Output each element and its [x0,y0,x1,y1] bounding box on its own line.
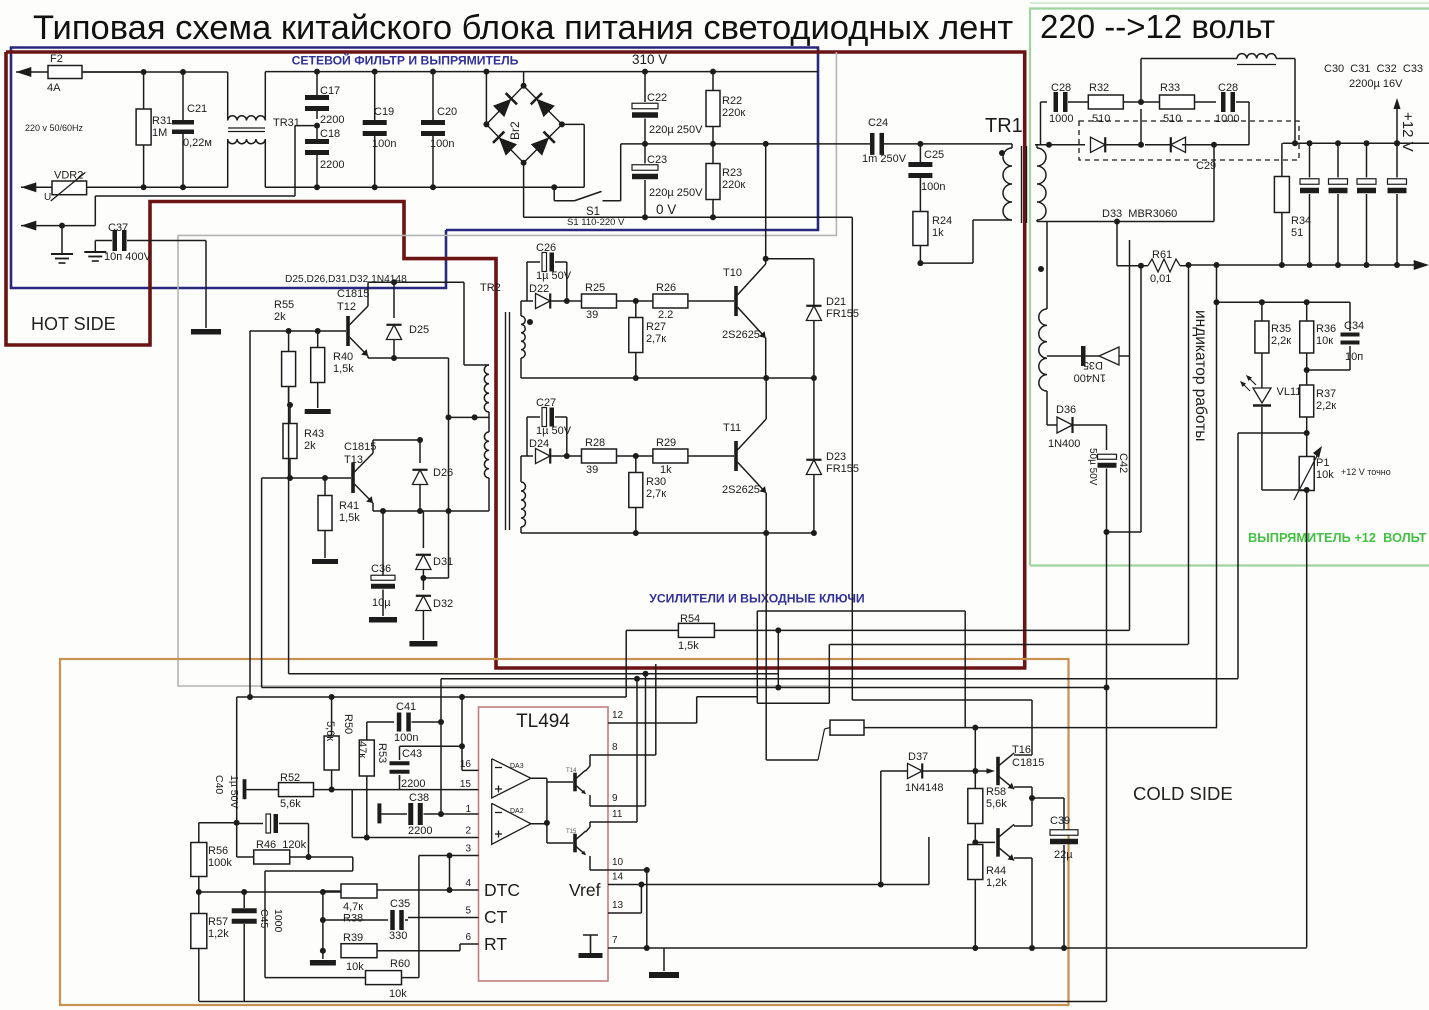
svg-text:U: U [44,192,51,203]
svg-text:D21: D21 [826,296,846,308]
ground bar R38 col [310,960,336,966]
label HOT SIDE [31,314,116,334]
label +12V vertical [1399,112,1416,152]
ground bar R40 [305,383,331,415]
label 0 V [656,202,676,217]
wire T15 emitter out [590,856,608,870]
svg-text:1m 250V: 1m 250V [862,153,907,165]
svg-text:5: 5 [465,906,471,917]
wire T14 emitter out [590,795,608,806]
svg-text:T12: T12 [337,301,356,313]
resistor R37 [1300,370,1337,433]
node dot D23 bottom [811,530,817,536]
wire R54 left riser [625,630,627,697]
wire plus12 rail [1283,140,1429,146]
wire pin4 [376,887,478,893]
wire pin13 [608,885,641,914]
svg-text:R30: R30 [646,476,666,488]
wire R54 right riser [775,630,781,690]
svg-text:51: 51 [1291,227,1303,239]
diode D24 [529,438,567,464]
svg-text:R41: R41 [339,500,359,512]
wire vref right riser [928,837,930,885]
svg-text:R34: R34 [1291,215,1311,227]
wire bottom rail row2 [521,527,814,536]
wire op-amp outputs [531,778,550,843]
wire T16 top rail [852,699,1032,701]
svg-text:D25: D25 [409,324,429,336]
label DTC [484,880,520,900]
svg-text:13: 13 [612,900,624,911]
svg-text:+12 V: +12 V [1399,112,1416,152]
capacitor C40 [213,775,279,809]
svg-text:C18: C18 [320,128,340,140]
wire bridge top to rail [521,72,527,89]
svg-text:10к: 10к [1316,335,1333,347]
svg-text:1,5k: 1,5k [339,512,360,524]
wire T10 emitter [765,338,767,378]
svg-text:C38: C38 [409,792,429,804]
capacitor C38 [377,792,432,837]
node dot C24 right [917,141,923,147]
svg-text:R46 120k: R46 120k [256,839,307,851]
wire cold c42 col [0,0,1,1]
diode D32 [416,596,453,640]
diode D25 [386,282,429,358]
node dot C17 C18 junction [314,123,320,129]
node dot R58 bottom [972,839,978,845]
wire bottom rail filter [265,186,584,188]
node dot D22 out [564,298,570,304]
resistor R27 [629,301,666,378]
label 310 V [632,52,667,67]
svg-text:C1815: C1815 [1012,757,1044,769]
bridge rectifier Br2 diamond [486,86,562,163]
diode D36 [1047,391,1107,450]
capacitor C42 [1087,425,1129,532]
diode D33a [1091,109,1145,152]
resistor R60 [265,958,419,1000]
svg-text:D26: D26 [433,467,453,479]
capacitor C37 [95,222,206,263]
svg-text:P1: P1 [1316,457,1329,469]
svg-text:1000: 1000 [272,909,284,933]
svg-text:2,2к: 2,2к [1271,335,1291,347]
wire pin15 riser [459,743,465,749]
capacitor C34 [1307,302,1364,370]
svg-text:1µ 50V: 1µ 50V [536,425,572,437]
arrow earth left [21,221,36,231]
svg-text:10п: 10п [1345,351,1363,363]
resistor R61 zigzag [1117,249,1189,285]
svg-text:T16: T16 [1012,744,1031,756]
wire row1 node [521,300,533,302]
svg-text:C21: C21 [187,103,207,115]
resistor R34 [1274,143,1311,265]
wire pin12 [608,722,697,724]
svg-text:D32: D32 [433,598,453,610]
transformer TR1 primary [999,144,1012,220]
capacitor C21 [172,72,212,187]
svg-text:100k: 100k [208,857,232,869]
wire C41 right down [438,679,444,814]
svg-text:VDR2: VDR2 [54,170,83,182]
svg-text:220 v 50/60Hz: 220 v 50/60Hz [25,123,84,133]
svg-text:УСИЛИТЕЛИ И ВЫХОДНЫЕ КЛЮЧИ: УСИЛИТЕЛИ И ВЫХОДНЫЕ КЛЮЧИ [649,592,864,606]
svg-text:C24: C24 [868,117,888,129]
svg-text:510: 510 [1163,113,1181,125]
wire secondary rect row [1035,142,1085,148]
wire 310V rail [524,71,818,73]
wire cold frame left [0,0,1,1]
svg-text:R35: R35 [1271,323,1291,335]
node dot R36 bottom [1304,367,1310,373]
op-amp DA2 [492,803,531,844]
capacitor C39 [1032,798,1078,948]
section label rectifier 12 volt green [1248,530,1427,545]
transistor T10 [722,264,766,341]
resistor R23 [706,144,745,217]
svg-text:R40: R40 [333,351,353,363]
svg-text:1k: 1k [660,464,672,476]
svg-text:R61: R61 [1152,249,1172,261]
wire aux bottom rail [1104,529,1142,535]
ground bar C36 [369,617,397,623]
svg-text:D25,D26,D31,D32 1N4148: D25,D26,D31,D32 1N4148 [285,274,407,285]
svg-text:R23: R23 [722,167,742,179]
svg-text:R57: R57 [208,916,228,928]
resistor R40 [311,328,355,383]
ground inside TL494 [579,935,603,958]
wire pin16 riser [247,331,462,770]
svg-text:1N400: 1N400 [1048,438,1080,450]
svg-text:R24: R24 [932,215,952,227]
resistor R50 [324,697,354,790]
capacitor C45 [232,892,284,1001]
svg-text:220 -->12 вольт: 220 -->12 вольт [1040,8,1275,45]
svg-text:R38: R38 [343,913,363,925]
svg-text:2: 2 [465,826,471,837]
resistor R28 [567,437,653,476]
wire top rail filter [265,71,523,73]
op-amp DA3 [492,759,531,798]
arrow mains mid left [21,182,36,192]
wire cold frame bottom [199,1001,1107,1003]
svg-text:100n: 100n [372,138,396,150]
wire fb h4 [289,673,779,675]
svg-text:7: 7 [612,935,618,946]
svg-text:4,7к: 4,7к [343,901,363,913]
svg-text:T10: T10 [723,267,742,279]
wire C28b down [1214,102,1249,145]
section label amplifiers and output keys [649,592,864,606]
wire pin16 [462,769,479,771]
resistor R32 [1088,82,1159,125]
node dot R30 top [633,453,639,459]
resistor R33 [1160,82,1217,125]
wire fb h5 [441,678,1238,680]
svg-text:2S2625: 2S2625 [722,329,760,341]
svg-text:DA3: DA3 [510,763,524,770]
label D33 MBR3060 [1102,208,1177,220]
svg-text:1,5k: 1,5k [678,640,699,652]
svg-text:39: 39 [586,464,598,476]
resistor R24 [913,212,952,264]
svg-text:R22: R22 [722,95,742,107]
varistor VDR2 [44,170,87,203]
potentiometer P1 [1294,446,1391,500]
transistor T13 [344,441,376,503]
wire T17 emitter [1014,858,1032,948]
svg-text:R25: R25 [585,282,605,294]
wire R24 bottom to TR1 [917,220,1012,266]
wire left col C40 [236,697,238,857]
wire pin14 Vref [608,882,929,888]
wire T13 base drop [261,478,263,688]
svg-text:C29: C29 [1196,160,1216,172]
svg-text:C43: C43 [402,748,422,760]
node dots C21 [180,69,186,190]
node dot C17 top [314,69,320,75]
wire T16 base [975,768,995,774]
IC TL494 box [479,707,609,981]
svg-text:5,6k: 5,6k [986,798,1007,810]
wire R56 top node [199,820,240,843]
node dot R27 top [633,298,639,304]
resistor R39 [341,932,460,973]
wire right column D26 [448,358,450,578]
svg-text:D37: D37 [908,751,928,763]
svg-text:T11: T11 [723,422,741,434]
node dots C20 [430,69,436,191]
svg-text:510: 510 [1092,113,1110,125]
capacitor C44 unnamed [237,814,309,833]
wire pin10 [608,867,650,948]
svg-text:1N4148: 1N4148 [905,782,944,794]
svg-text:C37: C37 [108,222,128,234]
label diode group [285,274,407,285]
wire C37 to gray ground [205,241,207,329]
bridge diode top-left [493,93,517,117]
ground bar R41 [312,531,338,565]
svg-text:11: 11 [612,809,623,820]
wire top h698 [237,694,627,700]
ground earth symbol 2 [84,241,106,262]
wire R32R33 to top [1141,59,1237,103]
svg-text:2,7к: 2,7к [646,488,666,500]
svg-text:1000: 1000 [1049,113,1073,125]
svg-text:10k: 10k [346,961,364,973]
resistor R29 [653,437,734,476]
diode D23 [806,378,859,533]
wire R55 bottom drop [288,387,290,674]
wire pin15 [352,789,478,791]
svg-text:СЕТЕВОЙ ФИЛЬТР И ВЫПРЯМИТЕЛЬ: СЕТЕВОЙ ФИЛЬТР И ВЫПРЯМИТЕЛЬ [292,53,519,68]
svg-text:CT: CT [484,907,508,927]
wire aux winding feed [1046,222,1048,310]
svg-text:330: 330 [389,930,407,942]
svg-text:R28: R28 [585,437,605,449]
svg-text:+12 V точно: +12 V точно [1341,467,1391,477]
svg-text:C45: C45 [258,909,270,928]
svg-text:C26: C26 [536,242,556,254]
svg-text:R27: R27 [646,321,666,333]
svg-text:1M: 1M [152,127,167,139]
svg-text:4A: 4A [47,82,61,94]
svg-text:C28: C28 [1218,82,1238,94]
resistor R57 [191,914,229,949]
wire T12 base [250,330,346,332]
svg-text:R50: R50 [342,714,354,734]
svg-text:1µ 50V: 1µ 50V [536,270,572,282]
svg-text:R43: R43 [304,428,324,440]
resistor R41 [318,475,360,531]
resistor R46 [237,839,309,864]
svg-text:Типовая схема китайского блока: Типовая схема китайского блока питания с… [33,9,1013,47]
node dot R23 bottom [710,214,716,220]
capacitor C26 [527,242,572,301]
wire pin3 pin4 link [449,856,451,891]
wire indicator top rail [1214,262,1351,728]
wire TR1 sec top [1037,102,1047,145]
switch S1 [551,144,625,228]
resistor R26 [653,282,734,321]
node dot D31 D32 [420,575,448,581]
svg-text:VL11: VL11 [1277,386,1302,398]
capacitor C28b [1215,82,1249,125]
wire T14 collector out [586,755,609,771]
wire pin6 [376,944,478,951]
svg-text:10: 10 [612,857,624,868]
wire T10 collector to mid rail [763,141,769,264]
svg-text:TR31: TR31 [273,117,300,129]
wire R52 node down pin2 [351,790,353,838]
resistor R30 [629,456,666,533]
svg-text:R31: R31 [152,115,172,127]
resistor R56 [191,843,233,877]
capacitor C23 [632,144,703,217]
svg-text:F2: F2 [50,53,63,65]
svg-text:0,22м: 0,22м [183,137,212,149]
transformer TR2 label [480,282,501,294]
svg-text:3: 3 [465,844,471,855]
wire C43 top [400,745,463,747]
resistor R44 [968,845,1007,949]
resistor R55 [282,328,296,387]
svg-text:R39: R39 [343,932,363,944]
wire row2 node [521,455,533,457]
wire T10 collector rail [763,256,814,262]
svg-text:FR155: FR155 [826,463,859,475]
labels C30-C33 [1324,63,1423,90]
wire T12 emitter [368,355,449,361]
svg-text:HOT SIDE: HOT SIDE [31,314,116,334]
svg-text:R36: R36 [1316,323,1336,335]
wire plus12 up arrow [1393,98,1400,146]
wire fb h687 [262,685,1110,691]
svg-text:C20: C20 [437,106,457,118]
diode D33b [1145,137,1214,152]
wire T16 collector [1014,700,1032,755]
svg-text:TL494: TL494 [516,711,570,732]
wire D33 out down [1211,142,1217,222]
wire bottom rail long [0,0,1,1]
wire primary 0V drop [851,217,853,700]
wire TR1 sec bottom [1037,219,1214,225]
svg-text:R52: R52 [280,772,300,784]
wire mid rail row1 [521,358,814,381]
svg-text:100n: 100n [430,138,454,150]
svg-text:1,2k: 1,2k [986,877,1007,889]
node dots C19 [372,69,378,191]
svg-text:1000: 1000 [1215,113,1239,125]
transformer TR2 core [506,312,510,530]
svg-text:220к: 220к [722,107,745,119]
svg-text:1k: 1k [932,227,944,239]
wire pin12 net [697,611,966,728]
svg-text:2,2к: 2,2к [1316,400,1336,412]
svg-text:DA2: DA2 [510,808,524,815]
svg-text:5,6k: 5,6k [280,798,301,810]
resistor R58 [968,771,1007,842]
wire T12 collector [368,279,464,306]
wire C44 right down [306,824,312,861]
svg-text:1,5k: 1,5k [333,363,354,375]
svg-text:C28: C28 [1051,82,1071,94]
svg-text:C27: C27 [536,397,556,409]
capacitor C36 [371,511,395,616]
wire mains line top [16,71,228,73]
wire T13 base [262,477,351,479]
capacitor C41 [367,701,441,744]
wire T15 collector out [586,822,609,832]
wire pin1 [425,811,479,817]
svg-text:T15: T15 [566,829,577,835]
svg-text:R55: R55 [274,299,294,311]
wire T16 feed [0,0,1,1]
wire R37 node left [1238,430,1310,457]
svg-text:220µ 250V: 220µ 250V [649,124,703,136]
transistor T12 [337,288,369,356]
wire pin3 [419,853,479,859]
svg-text:индикатор работы: индикатор работы [1192,310,1209,441]
svg-text:2200: 2200 [408,825,432,837]
svg-text:10п 400V: 10п 400V [104,251,152,263]
svg-text:2200: 2200 [320,114,344,126]
label CT [484,907,508,927]
transformer TR2 primary [464,282,489,478]
wire D33 node down to R61 [1116,222,1118,266]
svg-text:12: 12 [612,710,624,721]
node dot earth branch [59,223,65,229]
output rectifier green outline box [1030,3,1429,566]
wire fb vert cold2 [1188,265,1190,645]
node dot D21 bottom [811,375,817,381]
svg-text:D31: D31 [433,556,453,568]
svg-text:5,6к: 5,6к [324,721,336,741]
resistor R22 [706,72,745,144]
svg-text:Br2: Br2 [508,121,522,140]
wire T11 emitter [765,493,767,760]
svg-text:Vref: Vref [569,880,601,900]
svg-text:C23: C23 [647,154,667,166]
svg-text:D24: D24 [529,438,549,450]
label TL494 [516,711,570,732]
ground earth symbol 1 [51,226,73,263]
wire T13 emitter [373,503,489,514]
capacitor C28a [1049,82,1089,125]
wire R37 feedback down [1237,433,1239,679]
